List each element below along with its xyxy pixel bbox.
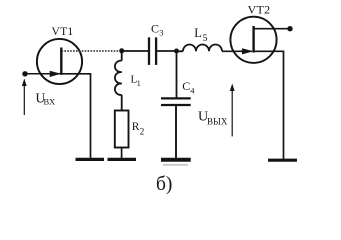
svg-text:R: R — [132, 121, 140, 133]
arrow Uvx — [22, 79, 27, 116]
capacitor C4 — [161, 51, 191, 159]
svg-text:1: 1 — [137, 79, 141, 88]
svg-text:C: C — [182, 79, 190, 93]
inductor L5 — [183, 44, 222, 51]
wire node A to C3 — [122, 50, 148, 52]
svg-text:2: 2 — [140, 127, 145, 137]
output terminal — [287, 26, 292, 31]
wire drain VT1 to node A — [62, 50, 121, 52]
wire node B to L5 — [177, 50, 184, 52]
label L5 — [194, 26, 207, 44]
label Uvyx — [198, 110, 228, 127]
svg-text:.: . — [70, 27, 72, 37]
svg-text:VT2: VT2 — [248, 3, 271, 17]
label C4 — [182, 79, 195, 96]
wire C3 to node B — [156, 50, 176, 52]
ground R2 — [108, 158, 137, 161]
transistor VT2 — [230, 17, 276, 63]
svg-text:ВЫХ: ВЫХ — [207, 117, 228, 127]
ground VT2 source — [268, 159, 297, 162]
inductor L1 — [115, 51, 122, 111]
label R2 — [132, 121, 145, 137]
arrow Uvyx — [230, 84, 235, 137]
svg-text:5: 5 — [203, 34, 208, 44]
wire L5 to gate VT2 — [222, 50, 252, 52]
node A junction L1 — [119, 48, 124, 53]
wire source VT1 — [62, 74, 91, 159]
svg-text:3: 3 — [159, 28, 163, 38]
node B junction C4 — [174, 49, 179, 54]
ground C4 — [161, 158, 191, 162]
svg-text:б): б) — [156, 174, 172, 195]
wire drain VT2 — [254, 28, 289, 30]
label L1 — [131, 74, 141, 89]
svg-text:ВХ: ВХ — [44, 97, 56, 107]
label Uvx — [36, 90, 56, 106]
svg-text:L: L — [194, 26, 202, 40]
node input — [22, 71, 27, 76]
ground VT1 source — [76, 158, 105, 161]
resistor R2 — [115, 111, 129, 159]
transistor VT1 — [37, 39, 82, 84]
svg-text:C: C — [151, 21, 159, 35]
svg-text:4: 4 — [190, 86, 195, 96]
label C3 — [151, 21, 164, 37]
wire gate VT1 — [25, 73, 61, 75]
capacitor C3 — [149, 37, 156, 65]
wire source VT2 — [255, 51, 284, 159]
